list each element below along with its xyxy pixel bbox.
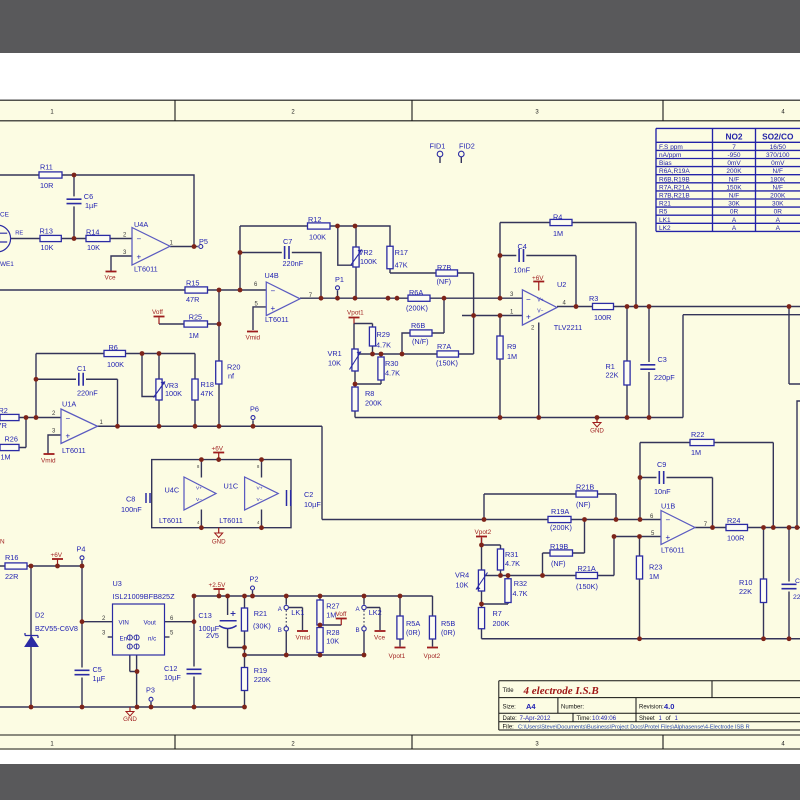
svg-text:370/100: 370/100 — [766, 152, 790, 159]
ground bottom rail — [129, 707, 131, 712]
wire R18 column — [194, 354, 196, 427]
wire mid row 655 — [245, 654, 365, 656]
svg-text:Bias: Bias — [659, 160, 672, 167]
svg-text:LT6011: LT6011 — [134, 264, 158, 273]
svg-text:0mV: 0mV — [771, 160, 785, 167]
svg-text:100K: 100K — [165, 389, 182, 398]
configuration table — [656, 128, 800, 231]
svg-text:7-Apr-2012: 7-Apr-2012 — [520, 715, 552, 722]
wire right feed down — [789, 307, 800, 385]
wire U2 pin1 row — [462, 315, 522, 317]
svg-text:22K: 22K — [606, 371, 619, 380]
svg-text:Sheet: Sheet — [639, 716, 655, 722]
svg-text:R21: R21 — [254, 609, 267, 618]
svg-text:R28: R28 — [326, 628, 339, 637]
svg-text:N/F: N/F — [729, 176, 740, 183]
svg-text:30K: 30K — [728, 201, 740, 208]
port Vpot1 R5A — [395, 647, 406, 649]
svg-text:C1: C1 — [77, 364, 86, 373]
wire U4B feedback vertical — [239, 226, 241, 290]
svg-text:Vpot2: Vpot2 — [424, 653, 441, 660]
resistor R5A — [397, 616, 403, 639]
svg-text:A: A — [776, 217, 781, 224]
svg-text:100K: 100K — [107, 360, 124, 369]
svg-text:+6V: +6V — [532, 275, 544, 282]
svg-text:D2: D2 — [35, 610, 44, 619]
svg-text:1M: 1M — [507, 352, 517, 361]
resistor R7 — [478, 608, 484, 629]
wire VR3 column — [158, 354, 160, 427]
resistor R4 — [550, 219, 572, 225]
wire R5B column — [432, 596, 434, 647]
svg-text:Vpot1: Vpot1 — [389, 653, 406, 660]
svg-text:En: En — [120, 635, 128, 642]
svg-text:Vpot2: Vpot2 — [475, 529, 492, 536]
svg-text:R7A,R21A: R7A,R21A — [659, 184, 690, 191]
svg-text:V+: V+ — [257, 486, 263, 492]
wire U1A output row — [98, 426, 662, 519]
port Vmid LK1 — [297, 630, 308, 632]
wire R23 column — [639, 537, 641, 639]
svg-text:U2: U2 — [557, 280, 566, 289]
sheet border bottom band — [0, 735, 800, 749]
wire R32 branch — [482, 576, 509, 605]
svg-text:NO2: NO2 — [725, 131, 742, 141]
wire right entry column — [797, 401, 800, 528]
svg-text:(0R): (0R) — [406, 628, 420, 637]
resistor R11 — [39, 172, 62, 178]
svg-text:P3: P3 — [146, 686, 155, 695]
wire Vpot1 to VR1 — [353, 324, 355, 350]
svg-text:LT6011: LT6011 — [159, 516, 183, 525]
resistor R7A — [437, 351, 459, 357]
svg-text:−: − — [66, 414, 71, 423]
port Vpot2 VR4 — [481, 538, 483, 546]
svg-text:10:49:06: 10:49:06 — [592, 715, 617, 722]
svg-text:R14: R14 — [86, 227, 99, 236]
svg-text:Vmid: Vmid — [41, 458, 56, 465]
capacitor C5 — [74, 668, 91, 678]
svg-text:C2: C2 — [304, 490, 313, 499]
wire R1 column — [626, 307, 628, 418]
diode D2 zener — [25, 637, 38, 647]
svg-text:−: − — [137, 235, 142, 244]
resistor R9 — [497, 336, 503, 359]
svg-text:LT6011: LT6011 — [219, 516, 243, 525]
svg-text:Vce: Vce — [374, 635, 385, 642]
wire C12 column — [193, 596, 195, 707]
svg-text:R31: R31 — [505, 550, 518, 559]
capacitor C2 — [287, 490, 291, 506]
svg-text:R29: R29 — [377, 330, 390, 339]
svg-text:U3: U3 — [113, 579, 122, 588]
application gray background top — [0, 0, 800, 53]
svg-text:R6A,R19A: R6A,R19A — [659, 168, 690, 175]
wire LK2 stubs — [363, 596, 365, 655]
resistor R6B — [410, 330, 432, 336]
svg-text:R9: R9 — [507, 342, 516, 351]
svg-text:C13: C13 — [198, 611, 211, 620]
svg-text:SO2/CO: SO2/CO — [762, 131, 794, 141]
svg-text:1M: 1M — [553, 229, 563, 238]
svg-text:F.S ppm: F.S ppm — [659, 144, 683, 151]
wire Vpot2 to VR4 — [481, 538, 483, 570]
wire +2.5V stub — [218, 590, 220, 597]
wire R12 row — [240, 226, 390, 246]
svg-text:100nF: 100nF — [121, 505, 142, 514]
svg-text:R26: R26 — [5, 435, 18, 444]
svg-text:nA/ppm: nA/ppm — [659, 152, 681, 159]
svg-text:U1A: U1A — [62, 400, 76, 409]
resistor R18 — [192, 379, 198, 400]
op-amp U4B — [266, 282, 300, 316]
svg-text:10µF: 10µF — [164, 673, 181, 682]
wire R2/R26 join — [0, 418, 26, 448]
svg-text:10nF: 10nF — [514, 265, 531, 274]
resistor R19B — [550, 550, 573, 556]
svg-text:R3: R3 — [589, 294, 598, 303]
svg-text:0R: 0R — [774, 209, 783, 216]
title block — [499, 681, 800, 730]
svg-text:BZV55-C6V8: BZV55-C6V8 — [35, 624, 78, 633]
port P6 — [251, 416, 255, 420]
svg-text:U1B: U1B — [661, 502, 675, 511]
wire +2.5V rail row — [194, 595, 433, 597]
wire VR1 bottom — [354, 371, 356, 384]
wire R4 feedback column — [499, 223, 501, 299]
svg-text:V−: V− — [196, 497, 202, 503]
svg-text:(200K): (200K) — [550, 523, 572, 532]
wire U2 pin2 to rail — [538, 323, 540, 418]
svg-text:47K: 47K — [395, 261, 408, 270]
wire U3 Vout row — [165, 621, 194, 623]
svg-text:4.7K: 4.7K — [505, 559, 520, 568]
wire R19 column — [244, 655, 246, 707]
svg-text:(0R): (0R) — [441, 628, 455, 637]
capacitor C12 — [186, 667, 203, 677]
wire R4 row — [500, 223, 636, 307]
svg-text:+6V: +6V — [212, 446, 224, 453]
svg-text:R7B: R7B — [437, 263, 451, 272]
resistor R23 — [636, 556, 642, 579]
svg-text:R21A: R21A — [578, 564, 596, 573]
svg-text:N/F: N/F — [773, 184, 784, 191]
port +6V left — [57, 559, 59, 566]
wire P4 stub — [81, 561, 83, 567]
svg-text:R7B,R21B: R7B,R21B — [659, 193, 690, 200]
resistor R26 — [0, 444, 19, 450]
svg-text:GND: GND — [590, 428, 604, 435]
wire U2 output row — [557, 306, 800, 308]
resistor R27 — [317, 600, 323, 625]
svg-text:R19: R19 — [254, 666, 267, 675]
wire C1 feedback row — [36, 379, 118, 426]
svg-text:100K: 100K — [309, 233, 326, 242]
potentiometer VR1 — [352, 349, 358, 371]
svg-text:1µF: 1µF — [85, 201, 98, 210]
svg-text:C7: C7 — [283, 237, 292, 246]
svg-text:Revision:: Revision: — [639, 705, 664, 711]
capacitor C7 — [282, 245, 292, 260]
wire R6 row — [36, 353, 195, 355]
wire R19B branch — [543, 520, 585, 576]
resistor R7B — [436, 270, 458, 276]
svg-text:VR1: VR1 — [328, 349, 342, 358]
port Vpot1 VR1 — [353, 319, 355, 324]
wire C9 row — [640, 478, 713, 528]
svg-text:4 electrode I.S.B: 4 electrode I.S.B — [523, 685, 599, 697]
svg-text:File:: File: — [503, 725, 515, 731]
svg-text:Size:: Size: — [503, 705, 517, 711]
wire R16 row — [0, 565, 82, 567]
wire U1A pin2 row — [0, 417, 61, 419]
svg-text:220K: 220K — [254, 675, 271, 684]
svg-text:−: − — [271, 287, 276, 296]
svg-text:10nF: 10nF — [654, 487, 671, 496]
svg-text:V+: V+ — [196, 486, 202, 492]
capacitor C4 — [516, 248, 526, 263]
svg-text:R19A: R19A — [551, 507, 569, 516]
svg-text:LT6011: LT6011 — [62, 446, 86, 455]
port +6V U2 — [533, 281, 544, 283]
svg-text:R7: R7 — [493, 609, 502, 618]
svg-text:(150K): (150K) — [576, 582, 598, 591]
svg-text:C3: C3 — [658, 355, 667, 364]
svg-text:of: of — [666, 716, 671, 722]
resistor R12 — [308, 223, 331, 229]
wire R21 column — [244, 596, 246, 655]
wire R27/R28 column — [319, 596, 321, 655]
resistor R28 — [317, 628, 323, 653]
wire R22 row — [640, 443, 773, 528]
svg-text:C9: C9 — [657, 460, 666, 469]
wire LK1 stubs — [285, 596, 287, 655]
svg-text:22K: 22K — [739, 587, 752, 596]
svg-text:C6: C6 — [84, 192, 93, 201]
svg-text:22: 22 — [793, 594, 800, 601]
svg-text:Number:: Number: — [561, 705, 584, 711]
svg-text:(NF): (NF) — [576, 500, 591, 509]
svg-text:Time:: Time: — [577, 716, 592, 722]
wire C4 row — [500, 256, 576, 307]
svg-text:R7A: R7A — [437, 342, 451, 351]
wire FID1 stub — [439, 157, 441, 163]
svg-text:100K: 100K — [360, 257, 377, 266]
svg-text:30K: 30K — [772, 201, 784, 208]
port P5 — [199, 245, 203, 249]
svg-text:−: − — [526, 295, 531, 304]
svg-text:P4: P4 — [77, 544, 86, 553]
wire U2 +6V stub — [538, 282, 540, 291]
wire VR2 bottom lead — [355, 267, 357, 298]
op-amp U1A — [61, 409, 98, 444]
svg-text:R16: R16 — [5, 553, 18, 562]
svg-text:U4A: U4A — [134, 220, 148, 229]
wire C13 column — [228, 596, 245, 648]
svg-text:C1: C1 — [795, 578, 800, 585]
resistor R30 — [378, 357, 384, 380]
port P3 — [149, 697, 153, 701]
svg-text:R8: R8 — [365, 389, 374, 398]
port +6V box — [213, 452, 224, 454]
svg-text:220nF: 220nF — [283, 259, 304, 268]
svg-text:Voff: Voff — [336, 611, 347, 618]
svg-text:R4: R4 — [553, 212, 562, 221]
svg-text:R30: R30 — [385, 359, 398, 368]
svg-text:-950: -950 — [727, 152, 740, 159]
svg-text:C12: C12 — [164, 664, 177, 673]
svg-text:47K: 47K — [201, 389, 214, 398]
resistor R24 — [726, 524, 748, 530]
svg-text:n/c: n/c — [148, 635, 156, 642]
op-amp U1C — [245, 477, 279, 510]
wire R5A column — [399, 596, 401, 647]
svg-text:−: − — [666, 516, 671, 525]
svg-text:C4: C4 — [518, 242, 527, 251]
port Vce LK2 — [375, 630, 386, 632]
svg-text:R6B: R6B — [411, 321, 425, 330]
svg-text:(NF): (NF) — [551, 559, 566, 568]
svg-text:VR4: VR4 — [455, 570, 469, 579]
svg-text:R19B: R19B — [550, 542, 568, 551]
svg-text:Vce: Vce — [105, 275, 116, 282]
svg-text:LK1: LK1 — [291, 608, 304, 617]
resistor R21 — [241, 608, 247, 631]
op-amp U4C — [184, 477, 216, 510]
resistor R20 — [216, 361, 222, 384]
wire VR2 wiper — [338, 226, 353, 265]
svg-text:R32: R32 — [514, 579, 527, 588]
resistor R19A — [548, 516, 571, 522]
svg-text:C8: C8 — [126, 495, 135, 504]
svg-text:7: 7 — [732, 144, 736, 151]
wire C6 branch — [73, 175, 75, 239]
resistor R10 — [760, 579, 766, 603]
wire VR4 bottom / R7 column — [481, 591, 483, 639]
fiducial FID2 — [459, 151, 465, 157]
port Voff R27 — [336, 618, 347, 620]
jumper LK2 — [362, 605, 366, 609]
wire box +6V stub — [218, 453, 220, 460]
capacitor C13 electrolytic — [219, 615, 237, 629]
resistor R3 — [593, 303, 614, 309]
svg-text:200K: 200K — [493, 619, 510, 628]
svg-text:U1C: U1C — [224, 482, 239, 491]
U3 thermal pads — [127, 635, 132, 640]
wire R6 left column — [35, 354, 37, 418]
potentiometer VR4 — [478, 570, 484, 591]
svg-text:R1: R1 — [606, 362, 615, 371]
svg-text:P1: P1 — [335, 275, 344, 284]
svg-text:P6: P6 — [250, 404, 259, 413]
port P1 — [336, 286, 340, 290]
resistor R25 — [184, 321, 208, 327]
port Vpot2 R5B — [427, 647, 438, 649]
svg-text:Voff: Voff — [152, 309, 163, 316]
port Voff R25 — [158, 318, 160, 325]
wire P3 stub — [150, 702, 152, 707]
svg-text:GND: GND — [212, 539, 226, 546]
svg-text:GND: GND — [123, 716, 137, 723]
wire U3 VIN row — [82, 621, 113, 623]
port P2 — [251, 586, 255, 590]
port Vmid U1A — [44, 453, 55, 455]
wire LK1 dotted — [285, 610, 287, 626]
wire R6B branch — [402, 298, 444, 354]
wire U3 pin3 stub — [108, 636, 113, 638]
svg-text:180K: 180K — [770, 176, 786, 183]
svg-text:A: A — [732, 225, 737, 232]
svg-text:220nF: 220nF — [77, 389, 98, 398]
svg-text:R11: R11 — [40, 163, 53, 172]
wire FID2 stub — [460, 157, 462, 163]
wire R21B bypass — [484, 494, 616, 520]
svg-text:LK2: LK2 — [369, 608, 382, 617]
svg-text:U4B: U4B — [265, 271, 279, 280]
svg-text:R10: R10 — [739, 578, 752, 587]
svg-text:CE: CE — [0, 212, 9, 219]
wire U4B output row to U2 pin3 — [300, 297, 522, 299]
svg-text:100R: 100R — [727, 534, 744, 543]
svg-text:LK2: LK2 — [659, 225, 671, 232]
wire U1C V+ stub — [261, 460, 263, 478]
svg-text:C5: C5 — [93, 665, 102, 674]
svg-text:P5: P5 — [199, 237, 208, 246]
svg-text:V−: V− — [257, 497, 263, 503]
svg-text:R5A: R5A — [406, 619, 420, 628]
resistor R21A — [576, 572, 598, 578]
svg-text:4.7K: 4.7K — [376, 340, 391, 349]
wire mid GND rail — [355, 315, 800, 418]
wire U3 pin5 stub — [165, 636, 170, 638]
wire bottom GND rail — [482, 638, 800, 640]
svg-text:1M: 1M — [649, 572, 659, 581]
svg-text:0R: 0R — [730, 209, 739, 216]
svg-text:R6: R6 — [109, 343, 118, 352]
wire R29 branch — [354, 324, 373, 355]
jumper LK1 — [284, 605, 288, 609]
svg-text:10K: 10K — [87, 243, 100, 252]
wire LK2 dotted — [363, 610, 365, 626]
svg-text:10µF: 10µF — [304, 500, 321, 509]
wire VR2 top lead — [355, 226, 357, 247]
resistor R29 — [369, 327, 375, 346]
resistor R1 — [624, 361, 630, 385]
wire LK2 A to Vce — [367, 608, 380, 631]
svg-text:LT6011: LT6011 — [265, 315, 289, 324]
capacitor C9 — [657, 470, 667, 485]
svg-text:LK1: LK1 — [659, 217, 671, 224]
resistor R5B — [429, 616, 435, 639]
svg-text:200K: 200K — [365, 399, 382, 408]
svg-text:N: N — [0, 539, 5, 546]
svg-text:FID2: FID2 — [459, 141, 475, 150]
svg-text:(200K): (200K) — [406, 304, 428, 313]
wire U1C V- stub — [261, 510, 263, 528]
wire U4A output to P5 — [170, 246, 198, 248]
resistor R2 — [0, 414, 19, 420]
svg-text:A: A — [776, 225, 781, 232]
svg-text:16/50: 16/50 — [770, 144, 787, 151]
svg-text:R25: R25 — [189, 313, 202, 322]
svg-text:N/F: N/F — [729, 193, 740, 200]
svg-text:R21: R21 — [659, 201, 671, 208]
svg-text:(N/F): (N/F) — [412, 337, 429, 346]
svg-text:R12: R12 — [308, 215, 321, 224]
svg-text:R5B: R5B — [441, 619, 455, 628]
wire U4A pin3 to Vce — [111, 256, 132, 271]
svg-text:VIN: VIN — [119, 620, 129, 627]
